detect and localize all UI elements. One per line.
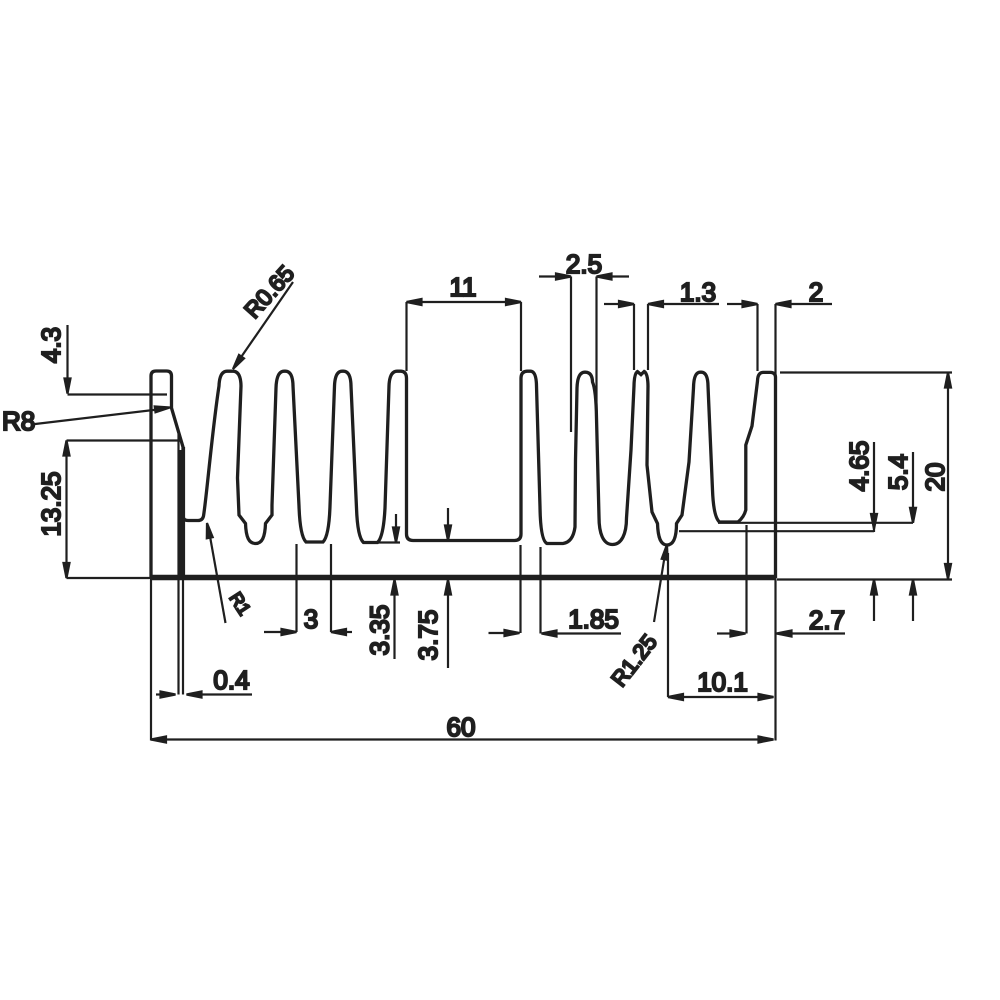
svg-text:13.25: 13.25 [36,471,66,536]
svg-text:5.4: 5.4 [883,454,913,490]
base bottom edge (thick) [150,575,777,580]
svg-text:11: 11 [450,272,477,302]
dimension 2.5 (fin7 width) [539,249,629,432]
leader R1 (floor fillet radius) [207,523,255,623]
dimension 2.7 (right wall thickness) [717,525,845,637]
heatsink extrusion profile outline [151,371,776,578]
extension line 5.4 level [718,522,913,524]
extension line base bottom right (for 20/4.65/5.4) [777,578,952,580]
dimension 10.1 [668,553,774,700]
svg-text:4.65: 4.65 [844,441,874,492]
dimension 3.75 (channel depth) [413,508,451,668]
clip slot 0.4 wide in left wall [179,434,185,577]
leader R1.25 (bulb radius) [606,545,667,692]
svg-text:1.3: 1.3 [680,277,716,307]
svg-text:10.1: 10.1 [697,667,748,697]
extension line right wall edge below base [774,580,776,741]
svg-text:1.85: 1.85 [568,604,619,634]
leader R0.65 (fin tip radius) [233,260,299,369]
svg-text:R8: R8 [2,406,35,436]
extension line 4.65 level (bulb center) [679,530,874,532]
dimension 60 (overall width) [151,712,774,743]
leader R8 (wall taper radius) [2,406,170,436]
dimension 20 (overall height) [920,373,951,580]
svg-text:2.5: 2.5 [566,249,602,279]
svg-text:2.7: 2.7 [809,605,845,635]
dimension 3 (gap width) [264,544,352,635]
extension line profile left edge below base [150,580,152,741]
svg-text:3.35: 3.35 [365,605,395,656]
svg-text:4.3: 4.3 [36,327,66,363]
dimension 11 (channel width) [407,272,522,371]
dimension 2 (right wall width) [727,277,832,375]
dimension 1.3 (fin8 width) [604,277,719,370]
svg-text:3: 3 [304,604,318,634]
svg-text:3.75: 3.75 [413,610,443,661]
svg-text:60: 60 [447,712,476,742]
dimension 0.4 (slot width) [156,580,252,698]
dimension 4.3 [36,325,167,395]
dimension 13.25 (wall notch depth) [36,441,180,579]
dimension 1.85 (fin6 width) [489,545,622,637]
extension line top of profile (for 20) [780,371,952,373]
dimension 3.35 (gap depth) [365,514,401,659]
svg-text:20: 20 [920,463,950,492]
dimension 5.4 [883,452,916,621]
dimension 4.65 [844,441,877,621]
svg-text:0.4: 0.4 [213,665,249,695]
svg-text:2: 2 [809,277,823,307]
